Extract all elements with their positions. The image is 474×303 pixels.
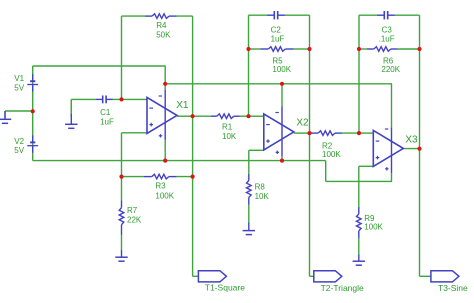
wire R2 right lead green <box>342 132 359 134</box>
label R3 <box>155 182 166 191</box>
wire C3 row left <box>359 14 377 16</box>
svg-text:22K: 22K <box>127 216 142 225</box>
label R8 <box>255 183 266 192</box>
resistor R3 <box>144 174 177 179</box>
svg-text:R5: R5 <box>272 57 283 66</box>
resistor R5 <box>261 47 294 52</box>
label R2 value <box>322 150 341 159</box>
wire X2 top power pin green <box>281 84 283 107</box>
svg-text:V2: V2 <box>14 137 24 146</box>
wire C3R6 left leg <box>358 15 360 133</box>
wire T2 stub <box>310 275 314 277</box>
wire X1 bottom power pin green <box>164 139 166 160</box>
capacitor C3 <box>377 11 395 19</box>
label R5 <box>272 57 283 66</box>
wire C3R6 right leg <box>419 15 421 149</box>
wire X3 +in leg down to R9 <box>358 166 360 207</box>
wire C2R5 left leg <box>248 15 250 116</box>
wire R3 row left green <box>122 176 145 178</box>
svg-text:R4: R4 <box>156 21 167 30</box>
label V2 value <box>14 146 24 155</box>
voltage source V1 battery <box>27 74 38 91</box>
label R7 value <box>127 216 142 225</box>
svg-text:10K: 10K <box>222 132 237 141</box>
capacitor C2 <box>267 11 285 19</box>
svg-text:100K: 100K <box>364 223 383 232</box>
junction V+ rail at X2 <box>280 82 284 86</box>
svg-text:C2: C2 <box>271 25 282 34</box>
wire T1 leg <box>192 177 194 277</box>
svg-text:100K: 100K <box>322 150 341 159</box>
wire R7 top green <box>121 177 123 201</box>
ground below R9 <box>353 255 365 266</box>
junction X2 output node <box>307 131 311 135</box>
resistor R9 <box>357 207 362 239</box>
wire V1 column <box>32 66 34 111</box>
capacitor C1 <box>96 96 113 104</box>
junction R3 right / T1 leg <box>191 175 195 179</box>
ground below C1 <box>65 99 77 128</box>
wire R6 row right <box>398 48 420 50</box>
op-amp X3 <box>373 128 403 173</box>
svg-text:10K: 10K <box>255 192 270 201</box>
svg-text:R7: R7 <box>127 206 138 215</box>
junction R5 left <box>246 47 250 51</box>
label R8 value <box>255 192 270 201</box>
label V1 value <box>14 84 24 93</box>
resistor R6 <box>367 47 398 52</box>
label T3-Sine <box>438 283 468 293</box>
label T1-Square <box>205 282 245 292</box>
svg-text:R6: R6 <box>383 57 394 66</box>
label R7 <box>127 206 138 215</box>
wire X1 top power pin green <box>164 84 166 91</box>
wire R4 row right <box>177 15 193 17</box>
wire R4 left leg <box>121 16 123 99</box>
wire R1 left lead green <box>193 115 211 117</box>
label R3 value <box>155 192 174 201</box>
wire R9 bottom green <box>358 238 360 254</box>
wire T1 stub <box>193 275 199 277</box>
label C3 value <box>379 35 395 44</box>
terminal T2-Triangle <box>314 271 342 282</box>
label X3 <box>405 135 418 146</box>
svg-text:R3: R3 <box>155 182 166 191</box>
op-amp X2 <box>264 106 294 156</box>
junction R6 left <box>357 47 361 51</box>
label C3 <box>382 25 393 34</box>
wire R7 bottom green <box>121 235 123 251</box>
svg-text:V1: V1 <box>14 74 24 83</box>
svg-text:.1uF: .1uF <box>379 35 395 44</box>
label R6 value <box>381 65 400 74</box>
wire bottom rail under X3 <box>326 180 392 182</box>
svg-text:X1: X1 <box>176 100 189 111</box>
junction bottom rail at X2 <box>280 159 284 163</box>
junction R2 / C3R6 left <box>357 131 361 135</box>
svg-text:100K: 100K <box>155 192 174 201</box>
wire V+ power rail <box>165 83 392 85</box>
label R4 <box>156 21 167 30</box>
wire X2 +in leg down to R8 <box>248 150 250 174</box>
label C1 <box>100 108 111 117</box>
label X2 <box>296 118 309 129</box>
label C2 value <box>271 35 285 44</box>
terminal T1-Square <box>198 271 226 282</box>
wire C2 row left <box>249 14 268 16</box>
wire R1 junction to X2 inverting input <box>249 115 264 117</box>
svg-text:100K: 100K <box>272 65 291 74</box>
svg-text:T3-Sine: T3-Sine <box>438 283 468 293</box>
label V1 <box>14 74 24 83</box>
wire R3 right leg from X1 out <box>192 116 194 176</box>
wire R6 row left <box>359 48 367 50</box>
wire X3 output <box>403 148 419 150</box>
wire C2 row right <box>285 14 310 16</box>
label T2-Triangle <box>321 283 364 293</box>
wire X3 output leg down to T3 <box>419 149 421 277</box>
wire T3 stub <box>420 275 431 277</box>
svg-text:T1-Square: T1-Square <box>205 282 245 292</box>
resistor R8 <box>247 174 252 205</box>
junction R5 right <box>307 47 311 51</box>
label R4 value <box>156 31 171 40</box>
wire X2 output <box>294 132 310 134</box>
junction V+ rail at X1 <box>163 82 167 86</box>
resistor R4 <box>145 14 177 19</box>
wire X2 +in row <box>249 149 264 151</box>
wire bottom rail rise to X3 pin <box>391 172 393 181</box>
resistor R2 <box>311 131 342 136</box>
op-amp X1 <box>147 90 177 140</box>
wire top rail drop to V+ node <box>164 66 166 84</box>
wire X1 noninverting input row <box>122 132 148 134</box>
label R5 value <box>272 65 291 74</box>
label X1 <box>176 100 189 111</box>
junction R1 / C2R5 left <box>246 114 250 118</box>
wire bottom rail jog down <box>325 161 327 182</box>
wire R8 bottom green <box>248 205 250 223</box>
junction X1 output node <box>191 114 195 118</box>
resistor R7 <box>119 200 124 234</box>
svg-text:50K: 50K <box>156 31 171 40</box>
junction R3 / R7 / X1 +in <box>119 175 123 179</box>
svg-text:X2: X2 <box>296 118 309 129</box>
svg-text:R2: R2 <box>322 141 333 150</box>
wire top rail from V1 to X1 power column <box>33 65 166 67</box>
wire ground branch left <box>5 110 33 112</box>
wire X1 +in leg down to R3 <box>121 133 123 177</box>
junction R6 right <box>417 47 421 51</box>
label R9 <box>364 214 375 223</box>
junction C1 / R4 / X1 inverting input <box>119 97 123 101</box>
label R1 <box>222 123 233 132</box>
label R2 <box>322 141 333 150</box>
label C2 <box>271 25 282 34</box>
svg-text:X3: X3 <box>405 135 418 146</box>
wire C1 right to junction <box>112 98 121 100</box>
wire C1 junction to X1 inverting input <box>122 98 148 100</box>
wire V1-V2 mid column <box>32 111 34 160</box>
wire R1 right lead green <box>240 115 249 117</box>
svg-text:5V: 5V <box>14 146 24 155</box>
label C1 value <box>100 117 114 126</box>
label R1 value <box>222 132 237 141</box>
wire R4 right leg <box>192 16 194 116</box>
resistor R1 <box>211 114 240 119</box>
label R9 value <box>364 223 383 232</box>
svg-text:T2-Triangle: T2-Triangle <box>321 283 364 293</box>
ground below R7 <box>115 250 127 261</box>
wire R5 row left <box>249 48 261 50</box>
wire C1 left lead <box>71 98 96 100</box>
svg-text:R1: R1 <box>222 123 233 132</box>
wire R3 row right green <box>177 176 193 178</box>
wire X1 output <box>177 115 193 117</box>
wire X2 output leg down to T2 <box>309 133 311 276</box>
junction bottom rail at X1 <box>163 159 167 163</box>
wire R4 row left <box>122 15 146 17</box>
svg-text:220K: 220K <box>381 65 400 74</box>
terminal T3-Sine <box>431 271 459 282</box>
junction X3 output node <box>417 147 421 151</box>
wire R5 row right <box>294 48 310 50</box>
wire R2 junction to X3 inverting input <box>359 132 373 134</box>
svg-text:C1: C1 <box>100 108 111 117</box>
label V2 <box>14 137 24 146</box>
ground near V1 <box>0 111 11 123</box>
wire X3 +in row <box>359 165 374 167</box>
voltage source V2 battery <box>27 135 38 152</box>
ground below R8 <box>243 223 255 235</box>
wire C2R5 right leg <box>309 15 311 133</box>
svg-text:R8: R8 <box>255 183 266 192</box>
wire R2 left lead green <box>310 132 312 134</box>
svg-text:1uF: 1uF <box>100 117 114 126</box>
svg-text:1uF: 1uF <box>271 35 285 44</box>
label R6 <box>383 57 394 66</box>
wire C1 ground stub top <box>70 99 72 117</box>
wire V+ rail drop to X3 top pin <box>391 84 393 128</box>
wire ground branch drop <box>4 111 6 119</box>
wire X2 bottom power pin green <box>281 156 283 161</box>
svg-text:C3: C3 <box>382 25 393 34</box>
junction V1-V2-ground <box>31 109 35 113</box>
wire C3 row right <box>395 14 420 16</box>
wire bottom rail <box>33 160 326 162</box>
svg-text:5V: 5V <box>14 84 24 93</box>
